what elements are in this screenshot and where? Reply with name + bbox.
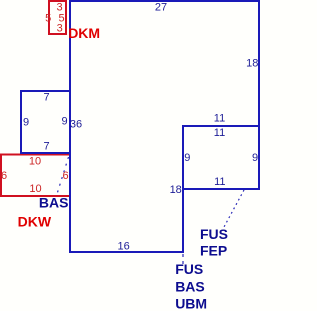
svg-text:6: 6: [63, 170, 69, 182]
svg-text:11: 11: [214, 113, 225, 125]
svg-text:18: 18: [246, 57, 258, 69]
svg-text:9: 9: [252, 152, 258, 164]
right sub-rectangle (FUS/FEP 11 x 9): [183, 126, 259, 189]
leader line to BAS label: [57, 157, 69, 194]
svg-text:36: 36: [70, 119, 82, 131]
svg-text:DKW: DKW: [18, 214, 52, 230]
svg-text:FEP: FEP: [200, 242, 227, 258]
svg-text:27: 27: [155, 1, 167, 13]
svg-text:5: 5: [45, 12, 51, 24]
svg-text:9: 9: [184, 152, 190, 164]
svg-text:BAS: BAS: [175, 279, 205, 295]
svg-text:7: 7: [43, 91, 49, 103]
svg-text:DKM: DKM: [68, 25, 100, 41]
svg-text:9: 9: [23, 117, 29, 129]
svg-text:16: 16: [117, 240, 129, 252]
svg-text:3: 3: [57, 23, 63, 35]
blue square annex (7 x 9): [21, 91, 70, 153]
leader line to FUS/BAS/UBM label: [182, 254, 184, 264]
leader line to FUS/FEP label: [224, 190, 244, 227]
main building outline polygon: [70, 1, 259, 252]
svg-text:10: 10: [29, 156, 41, 168]
svg-text:FUS: FUS: [175, 261, 203, 277]
svg-text:6: 6: [1, 170, 7, 182]
svg-text:18: 18: [170, 184, 182, 196]
deck DKM red rectangle (top): [49, 1, 66, 34]
svg-text:7: 7: [43, 141, 49, 153]
svg-text:11: 11: [214, 127, 225, 139]
svg-text:11: 11: [214, 176, 225, 188]
svg-text:UBM: UBM: [175, 296, 207, 311]
svg-text:BAS: BAS: [39, 195, 69, 211]
svg-text:FUS: FUS: [200, 226, 228, 242]
svg-text:9: 9: [61, 116, 67, 128]
patio/deck red rectangle (left middle): [1, 155, 70, 197]
svg-text:10: 10: [29, 183, 41, 195]
